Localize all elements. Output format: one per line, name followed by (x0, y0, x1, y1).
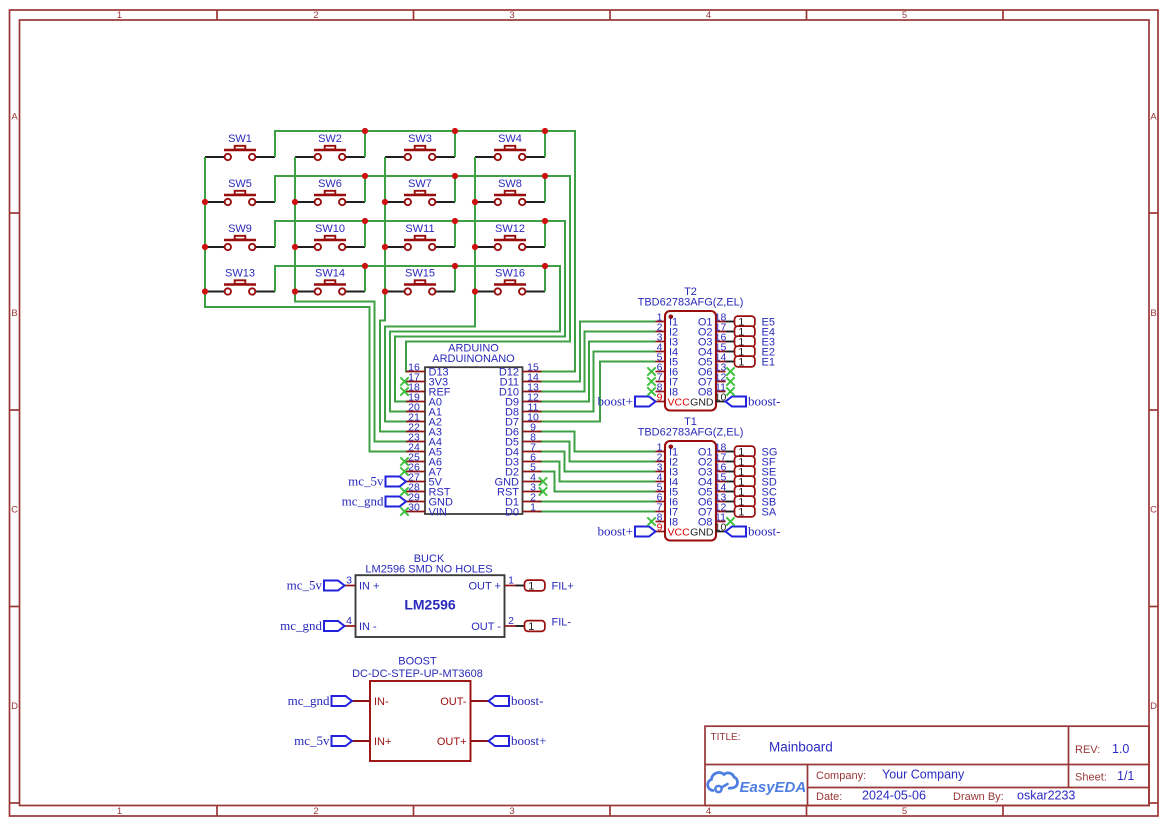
IC T2 TBD62783AFG(Z,EL) (638, 286, 744, 411)
ARDUINO pin 23 A4 (406, 431, 442, 448)
wire net D10-T2.I2 (538, 332, 656, 392)
title block text TITLE Mainboard (711, 732, 833, 755)
svg-text:3: 3 (509, 10, 514, 21)
svg-text:mc_gnd: mc_gnd (342, 494, 384, 509)
ARDUINO pin 11 D8 (505, 401, 542, 418)
svg-text:2: 2 (313, 806, 318, 817)
ARDUINO pin 5 D2 (505, 461, 542, 478)
svg-text:E1: E1 (762, 357, 775, 369)
ARDUINO pin 9 D6 (505, 421, 542, 438)
junction dots column2 (292, 199, 298, 295)
connector SA (T1 O7) (726, 506, 777, 518)
connector SF (T1 O2) (726, 456, 776, 468)
net flag boost+ (T1 VCC) (597, 524, 655, 539)
T2 pin 2 I2 (656, 321, 679, 338)
T2 pin 14 O5 (698, 351, 727, 368)
T1 pin 13 O6 (698, 491, 727, 508)
T2 pin 5 I5 (656, 351, 679, 368)
T2 pin 9 VCC (656, 391, 691, 408)
ARDUINO pin 18 REF (400, 381, 450, 398)
switch SW9 (205, 223, 275, 250)
svg-text:4: 4 (346, 615, 352, 627)
svg-text:IN +: IN + (359, 581, 379, 593)
IC ARDUINO ARDUINONANO (425, 342, 523, 514)
ARDUINO pin 10 D7 (505, 411, 542, 428)
switch SW2 (295, 133, 365, 160)
T1 pin 2 I2 (656, 451, 679, 468)
svg-text:C: C (11, 505, 18, 516)
svg-text:B: B (11, 308, 17, 319)
ARDUINO pin 29 GND (406, 491, 453, 508)
svg-text:Mainboard: Mainboard (769, 740, 833, 755)
title block (705, 726, 1149, 805)
switch SW10 (295, 223, 365, 250)
title block REV 1.0 (1075, 742, 1129, 756)
BUCK pin 1 OUT+ (468, 574, 515, 592)
svg-text:SW9: SW9 (228, 223, 252, 235)
net flag mc_5v (ARDUINO pin 27) (348, 474, 406, 489)
ARDUINO pin 1 D0 (505, 501, 542, 518)
T2 pin 1 I1 (656, 311, 679, 328)
wire net D2-T1.I5 (538, 472, 656, 492)
wire net D0-T1.I7 (538, 511, 656, 513)
wire net D9-T2.I3 (538, 342, 656, 402)
svg-text:1: 1 (528, 580, 534, 592)
T1 pin 9 VCC (656, 521, 691, 538)
svg-text:SW12: SW12 (495, 223, 525, 235)
svg-text:9: 9 (657, 391, 663, 403)
title block Sheet 1/1 (1075, 769, 1134, 784)
svg-text:3: 3 (509, 806, 514, 817)
switch SW6 (295, 178, 365, 205)
svg-text:TITLE:: TITLE: (711, 732, 741, 743)
module BOOST DC-DC-STEP-UP-MT3608 (352, 655, 483, 761)
switch SW16 (475, 267, 545, 294)
T1 pin 11 O8 (698, 511, 726, 528)
ARDUINO pin 3 RST (497, 481, 547, 498)
svg-text:FIL+: FIL+ (552, 581, 574, 593)
junction dots row4 (362, 263, 548, 269)
T2 pin 4 I4 (656, 341, 679, 358)
svg-text:OUT +: OUT + (468, 581, 501, 593)
wire net D7-T2.I5 (538, 362, 656, 422)
no-connect mark T1 left I8 (647, 517, 655, 525)
svg-text:1: 1 (738, 506, 744, 518)
BOOST pin IN- (352, 696, 389, 708)
svg-text:Date:: Date: (816, 791, 842, 803)
svg-text:A: A (11, 112, 18, 123)
ARDUINO pin 14 D11 (500, 371, 542, 388)
svg-text:OUT+: OUT+ (437, 736, 467, 748)
svg-text:2: 2 (313, 10, 318, 21)
ARDUINO pin 20 A1 (406, 401, 442, 418)
net flag boost- (BOOST OUT-) (489, 693, 544, 708)
net flag mc_gnd (ARDUINO pin 29) (342, 494, 406, 509)
svg-text:1.0: 1.0 (1112, 742, 1129, 756)
connector SC (T1 O5) (726, 486, 777, 498)
svg-text:boost-: boost- (748, 524, 781, 539)
svg-text:ARDUINONANO: ARDUINONANO (432, 353, 515, 365)
BUCK pin 4 IN- (345, 615, 378, 633)
ARDUINO pin 4 GND (495, 471, 548, 488)
T1 pin 8 I8 (656, 511, 679, 528)
svg-text:5: 5 (902, 806, 907, 817)
ARDUINO pin 17 3V3 (400, 371, 448, 388)
svg-text:IN+: IN+ (374, 736, 391, 748)
junction dots row3 (362, 218, 548, 224)
BUCK pin 2 OUT- (471, 615, 515, 633)
T2 pin 12 O7 (698, 371, 727, 388)
svg-text:C: C (1150, 505, 1157, 516)
EasyEDA logo (708, 773, 807, 796)
switch SW5 (205, 178, 275, 205)
connector FIL- (BUCK OUT-) (516, 617, 572, 633)
svg-text:D: D (11, 701, 18, 712)
junction dots column4 (472, 199, 478, 295)
svg-text:Company:: Company: (816, 770, 866, 782)
svg-text:boost+: boost+ (597, 394, 633, 409)
svg-text:SW10: SW10 (315, 223, 345, 235)
switch SW13 (205, 267, 275, 294)
svg-text:1: 1 (530, 501, 536, 513)
wire net D6-T1.I1 (538, 432, 656, 452)
T2 pin 17 O2 (698, 321, 727, 338)
svg-text:IN -: IN - (359, 621, 377, 633)
ARDUINO pin 24 A5 (406, 441, 442, 458)
T1 pin 17 O2 (698, 451, 727, 468)
switch SW12 (475, 223, 545, 250)
T1 pin 16 O3 (698, 461, 727, 478)
BOOST pin IN+ (352, 736, 391, 748)
T1 pin 3 I3 (656, 461, 679, 478)
svg-text:2024-05-06: 2024-05-06 (862, 789, 926, 803)
svg-text:SW11: SW11 (405, 223, 434, 235)
ARDUINO pin 26 A7 (400, 461, 442, 478)
net flag mc_5v (BUCK IN+) (287, 578, 345, 593)
svg-text:VCC: VCC (668, 397, 691, 409)
switch SW15 (385, 267, 455, 294)
ARDUINO pin 12 D9 (505, 391, 542, 408)
wire row2 net (SW right pins row 2) (275, 176, 570, 372)
title block Date / Drawn By (816, 789, 1075, 804)
net flag mc_gnd (BUCK IN-) (280, 618, 344, 633)
svg-text:SW2: SW2 (318, 133, 342, 145)
svg-text:SA: SA (762, 507, 777, 519)
wire column3 net (SW left pins col 3) (380, 157, 409, 432)
svg-text:SW14: SW14 (315, 267, 345, 279)
IC T1 TBD62783AFG(Z,EL) (638, 416, 744, 541)
BOOST pin OUT+ (437, 736, 489, 748)
ARDUINO pin 30 VIN (400, 501, 447, 518)
ARDUINO pin 19 A0 (406, 391, 442, 408)
svg-text:SW6: SW6 (318, 178, 342, 190)
svg-text:TBD62783AFG(Z,EL): TBD62783AFG(Z,EL) (638, 296, 744, 308)
svg-text:boost+: boost+ (511, 733, 547, 748)
wire net D5-T1.I2 (538, 442, 656, 462)
svg-text:D: D (1150, 701, 1157, 712)
connector FIL+ (BUCK OUT+) (516, 580, 574, 592)
ARDUINO pin 15 D12 (499, 361, 542, 378)
ARDUINO pin 25 A6 (400, 451, 442, 468)
junction dots column3 (382, 199, 388, 295)
T2 pin 18 O1 (698, 311, 727, 328)
wire column2 net (SW left pins col 2) (295, 157, 409, 442)
connector E1 (T2 O5) (726, 356, 775, 368)
T1 pin 12 O7 (698, 501, 727, 518)
BUCK pin 3 IN+ (345, 574, 380, 592)
svg-text:3: 3 (346, 574, 352, 586)
svg-text:1/1: 1/1 (1117, 769, 1134, 783)
svg-text:DC-DC-STEP-UP-MT3608: DC-DC-STEP-UP-MT3608 (352, 668, 483, 680)
switch SW1 (205, 133, 275, 160)
junction dots row2 (362, 173, 548, 179)
net flag mc_gnd (BOOST IN-) (288, 693, 352, 708)
connector SD (T1 O4) (726, 476, 777, 488)
svg-text:FIL-: FIL- (552, 617, 572, 629)
T1 pin 7 I7 (656, 501, 679, 518)
svg-text:Sheet:: Sheet: (1075, 772, 1107, 784)
net flag boost+ (BOOST OUT+) (489, 733, 547, 748)
T1 pin 14 O5 (698, 481, 727, 498)
T2 pin 6 I6 (656, 361, 679, 378)
svg-text:D0: D0 (505, 507, 519, 519)
svg-text:VCC: VCC (668, 527, 691, 539)
svg-text:SW16: SW16 (495, 267, 525, 279)
svg-text:LM2596: LM2596 (404, 597, 456, 613)
svg-text:TBD62783AFG(Z,EL): TBD62783AFG(Z,EL) (638, 426, 744, 438)
ARDUINO pin 8 D5 (505, 431, 542, 448)
switch SW3 (385, 133, 455, 160)
wire row4 net (SW right pins row 4) (275, 266, 560, 412)
svg-text:boost+: boost+ (597, 524, 633, 539)
svg-text:OUT -: OUT - (471, 621, 501, 633)
svg-text:B: B (1150, 308, 1156, 319)
module BUCK LM2596 SMD NO HOLES (356, 553, 505, 637)
connector E3 (T2 O3) (726, 336, 775, 348)
wire column4 net (SW left pins col 4) (385, 157, 475, 422)
svg-text:A: A (1150, 112, 1157, 123)
svg-text:1: 1 (117, 806, 122, 817)
T1 pin 15 O4 (698, 471, 727, 488)
svg-text:SW7: SW7 (408, 178, 432, 190)
connector E5 (T2 O1) (726, 316, 775, 328)
T2 pin 8 I8 (656, 381, 679, 398)
svg-text:SW5: SW5 (228, 178, 252, 190)
svg-text:BOOST: BOOST (398, 655, 437, 667)
T1 pin 1 I1 (656, 441, 679, 458)
T2 pin 3 I3 (656, 331, 679, 348)
svg-text:SW13: SW13 (225, 267, 255, 279)
ARDUINO pin 13 D10 (499, 381, 542, 398)
svg-text:mc_5v: mc_5v (287, 578, 323, 593)
svg-text:mc_gnd: mc_gnd (288, 693, 330, 708)
T2 pin 10 GND (690, 391, 726, 408)
svg-text:mc_5v: mc_5v (348, 474, 384, 489)
wire net D3-T1.I4 (538, 462, 656, 482)
svg-text:1: 1 (508, 574, 514, 586)
ARDUINO pin 27 5V (406, 471, 443, 488)
switch SW7 (385, 178, 455, 205)
svg-text:boost-: boost- (748, 394, 781, 409)
T2 pin 15 O4 (698, 341, 727, 358)
net flag boost- (T2 GND) (726, 394, 781, 409)
ARDUINO pin 16 D13 (406, 361, 449, 378)
svg-text:GND: GND (690, 397, 714, 409)
svg-text:Drawn By:: Drawn By: (953, 791, 1004, 803)
junction dots column1 (202, 199, 208, 295)
T2 pin 13 O6 (698, 361, 727, 378)
net flag boost+ (T2 VCC) (597, 394, 655, 409)
T2 pin 11 O8 (698, 381, 726, 398)
svg-text:LM2596 SMD NO HOLES: LM2596 SMD NO HOLES (365, 563, 492, 575)
svg-text:mc_gnd: mc_gnd (280, 618, 322, 633)
wire row1 net (SW right pins row 1) (275, 131, 575, 372)
junction dots row1 (362, 128, 548, 134)
title block Company (816, 768, 965, 783)
switch SW4 (475, 133, 545, 160)
wire net D11-T2.I1 (538, 322, 656, 382)
T1 pin 5 I5 (656, 481, 679, 498)
svg-text:1: 1 (738, 356, 744, 368)
ARDUINO pin 7 D4 (505, 441, 542, 458)
connector SE (T1 O3) (726, 466, 777, 478)
svg-text:OUT-: OUT- (440, 696, 467, 708)
svg-text:5: 5 (902, 10, 907, 21)
svg-text:GND: GND (690, 527, 714, 539)
T1 pin 4 I4 (656, 471, 679, 488)
switch SW14 (295, 267, 365, 294)
svg-text:SW1: SW1 (228, 133, 252, 145)
svg-text:1: 1 (528, 621, 534, 633)
svg-text:mc_5v: mc_5v (294, 733, 330, 748)
ARDUINO pin 6 D3 (505, 451, 542, 468)
wire net D8-T2.I4 (538, 352, 656, 412)
no-connect marks T2 left I6,I7,I8 (647, 367, 655, 395)
svg-text:SW8: SW8 (498, 178, 522, 190)
connector E2 (T2 O4) (726, 346, 775, 358)
switch SW11 (385, 223, 455, 250)
svg-text:Your Company: Your Company (882, 768, 965, 782)
ARDUINO pin 21 A2 (406, 411, 442, 428)
BOOST pin OUT- (440, 696, 488, 708)
wire column1 net (SW left pins col 1) (205, 157, 409, 452)
wire net D1-T1.I6 (538, 501, 656, 503)
svg-text:30: 30 (408, 501, 420, 513)
T2 pin 7 I7 (656, 371, 679, 388)
connector E4 (T2 O2) (726, 326, 775, 338)
connector SG (T1 O1) (726, 446, 778, 458)
ARDUINO pin 28 RST (400, 481, 450, 498)
svg-text:REV:: REV: (1075, 744, 1100, 756)
svg-text:SW3: SW3 (408, 133, 432, 145)
T1 pin 6 I6 (656, 491, 679, 508)
switch SW8 (475, 178, 545, 205)
svg-text:SW4: SW4 (498, 133, 522, 145)
svg-text:IN-: IN- (374, 696, 389, 708)
svg-text:oskar2233: oskar2233 (1017, 789, 1075, 803)
no-connect marks T2 (726, 367, 734, 395)
svg-text:SW15: SW15 (405, 267, 435, 279)
no-connect marks T1 (726, 517, 734, 525)
ARDUINO pin 2 D1 (505, 491, 542, 508)
T1 pin 10 GND (690, 521, 726, 538)
svg-text:2: 2 (508, 615, 514, 627)
wire row3 net (SW right pins row 3) (275, 221, 565, 402)
svg-text:VIN: VIN (429, 507, 447, 519)
svg-text:4: 4 (706, 10, 711, 21)
svg-text:1: 1 (117, 10, 122, 21)
wire net D4-T1.I3 (538, 452, 656, 472)
net flag boost- (T1 GND) (726, 524, 781, 539)
T1 pin 18 O1 (698, 441, 727, 458)
net flag mc_5v (BOOST IN+) (294, 733, 352, 748)
ARDUINO pin 22 A3 (406, 421, 442, 438)
svg-text:4: 4 (706, 806, 711, 817)
T2 pin 16 O3 (698, 331, 727, 348)
svg-text:EasyEDA: EasyEDA (740, 779, 807, 796)
connector SB (T1 O6) (726, 496, 777, 508)
svg-text:9: 9 (657, 521, 663, 533)
svg-text:boost-: boost- (511, 693, 544, 708)
